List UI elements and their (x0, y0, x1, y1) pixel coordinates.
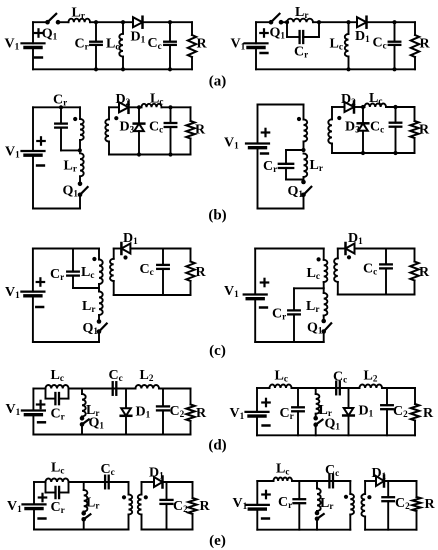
svg-text:R: R (196, 265, 207, 280)
svg-text:R: R (423, 406, 434, 421)
svg-text:R: R (425, 497, 436, 512)
svg-text:R: R (419, 265, 430, 280)
svg-text:R: R (196, 406, 207, 421)
svg-text:(b): (b) (208, 208, 226, 224)
svg-text:(d): (d) (208, 438, 226, 454)
svg-text:R: R (197, 37, 208, 52)
svg-text:(e): (e) (209, 533, 226, 549)
svg-text:R: R (195, 123, 206, 138)
svg-text:R: R (419, 123, 430, 138)
svg-text:R: R (200, 499, 211, 514)
svg-text:(a): (a) (209, 74, 227, 90)
svg-text:(c): (c) (209, 343, 226, 359)
svg-text:R: R (420, 37, 431, 52)
